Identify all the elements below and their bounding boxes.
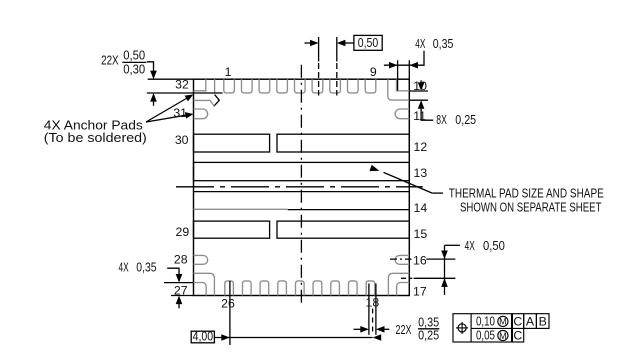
svg-text:0,05: 0,05	[476, 329, 495, 343]
svg-text:0,25: 0,25	[455, 113, 476, 127]
pin 10 pad	[397, 79, 410, 91]
svg-text:C: C	[513, 315, 522, 329]
leader note thermal pad	[370, 165, 604, 215]
top terminal pads pins 1-9	[224, 79, 376, 93]
horizontal center line	[176, 186, 423, 188]
pin 32 pad	[194, 79, 206, 91]
svg-text:18: 18	[366, 296, 380, 310]
GD&T feature control frame	[453, 314, 549, 343]
svg-text:17: 17	[413, 285, 427, 299]
svg-text:16: 16	[413, 254, 427, 268]
svg-text:15: 15	[414, 227, 428, 241]
svg-text:13: 13	[414, 166, 428, 180]
leader note 4X anchor pads	[44, 95, 194, 145]
svg-text:10: 10	[413, 79, 427, 93]
svg-text:1: 1	[225, 65, 232, 79]
svg-text:0,35: 0,35	[418, 315, 439, 329]
pin 26 label	[221, 297, 235, 311]
svg-text:C: C	[513, 329, 522, 343]
svg-text:THERMAL PAD SIZE AND SHAPE: THERMAL PAD SIZE AND SHAPE	[449, 187, 604, 201]
svg-text:4X: 4X	[119, 261, 130, 275]
anchor pad bottom-right	[388, 273, 409, 295]
anchor pad top-right	[388, 79, 410, 100]
svg-text:A: A	[526, 315, 535, 329]
svg-text:0,50: 0,50	[358, 36, 379, 50]
svg-text:M: M	[499, 331, 507, 341]
pin 30 pad	[194, 134, 270, 152]
pin 14 pad top edge	[194, 191, 410, 193]
svg-text:31: 31	[173, 106, 187, 120]
svg-text:29: 29	[176, 225, 190, 239]
svg-text:4,00: 4,00	[193, 330, 214, 344]
pin 15 pad	[277, 221, 409, 238]
svg-text:0,50: 0,50	[483, 239, 505, 253]
svg-text:4X: 4X	[465, 239, 476, 253]
svg-text:12: 12	[414, 140, 428, 154]
pin 14 pad bottom edge black	[288, 209, 410, 211]
pin 31 pad	[194, 109, 208, 119]
pin 27 pad	[194, 283, 207, 296]
dimension 0,50 boxed basic	[305, 35, 383, 95]
anchor pad bottom-left	[194, 273, 215, 295]
pin 28 pad	[194, 255, 208, 264]
pin 16 pad	[395, 255, 409, 264]
svg-text:0,35: 0,35	[136, 261, 156, 275]
anchor pad top-left gray	[194, 100, 215, 106]
svg-text:0,30: 0,30	[123, 63, 145, 77]
pin 17 pad	[397, 283, 410, 296]
left pin labels 32-27	[173, 77, 189, 297]
anchor pad top-left chamfer dark	[214, 95, 220, 107]
pin 13 pad	[194, 162, 410, 180]
dimension 4X 0,35 top-right	[384, 37, 454, 91]
pin 11 pad	[395, 109, 409, 119]
dimension 22X 0,35/0,25 bottom	[354, 284, 440, 343]
vertical center line	[300, 65, 302, 306]
pad stub near pin 1	[214, 79, 216, 93]
svg-text:11: 11	[413, 109, 426, 123]
pin 1 and 9 labels	[225, 65, 377, 79]
dimension 4X 0,35 left-bottom	[119, 261, 194, 309]
svg-text:8X: 8X	[436, 113, 447, 127]
svg-text:22X: 22X	[396, 323, 412, 337]
svg-text:M: M	[499, 317, 507, 327]
svg-text:(To be soldered): (To be soldered)	[44, 131, 147, 145]
svg-text:0,25: 0,25	[418, 328, 439, 342]
svg-text:B: B	[539, 315, 547, 329]
svg-text:30: 30	[175, 133, 189, 147]
dimension 4X 0,50 right-bottom	[390, 239, 505, 295]
pin 29 pad	[194, 221, 270, 238]
svg-text:9: 9	[370, 65, 377, 79]
svg-text:26: 26	[221, 297, 235, 311]
bottom terminal pads pins 26-18	[225, 281, 375, 296]
dimension 4,00 basic bottom	[191, 281, 381, 345]
svg-text:4X: 4X	[415, 37, 426, 51]
svg-text:22X: 22X	[101, 54, 119, 68]
pin 18 label	[366, 296, 380, 310]
svg-text:32: 32	[175, 77, 189, 91]
svg-text:28: 28	[174, 253, 188, 267]
right pin labels 10-17	[413, 79, 427, 298]
svg-text:0,35: 0,35	[433, 37, 454, 51]
dimension 8X 0,25 right	[409, 80, 476, 127]
svg-text:14: 14	[414, 201, 428, 215]
svg-text:0,50: 0,50	[123, 48, 145, 62]
pin 14 pad bottom edge gray	[194, 208, 288, 210]
svg-text:27: 27	[174, 284, 188, 298]
svg-text:0,10: 0,10	[476, 315, 495, 329]
package body outline	[194, 79, 410, 295]
svg-text:SHOWN ON SEPARATE SHEET: SHOWN ON SEPARATE SHEET	[460, 201, 602, 215]
dimension 22X 0,50/0,30 top-left	[101, 48, 223, 105]
pin 12 pad	[277, 134, 409, 152]
